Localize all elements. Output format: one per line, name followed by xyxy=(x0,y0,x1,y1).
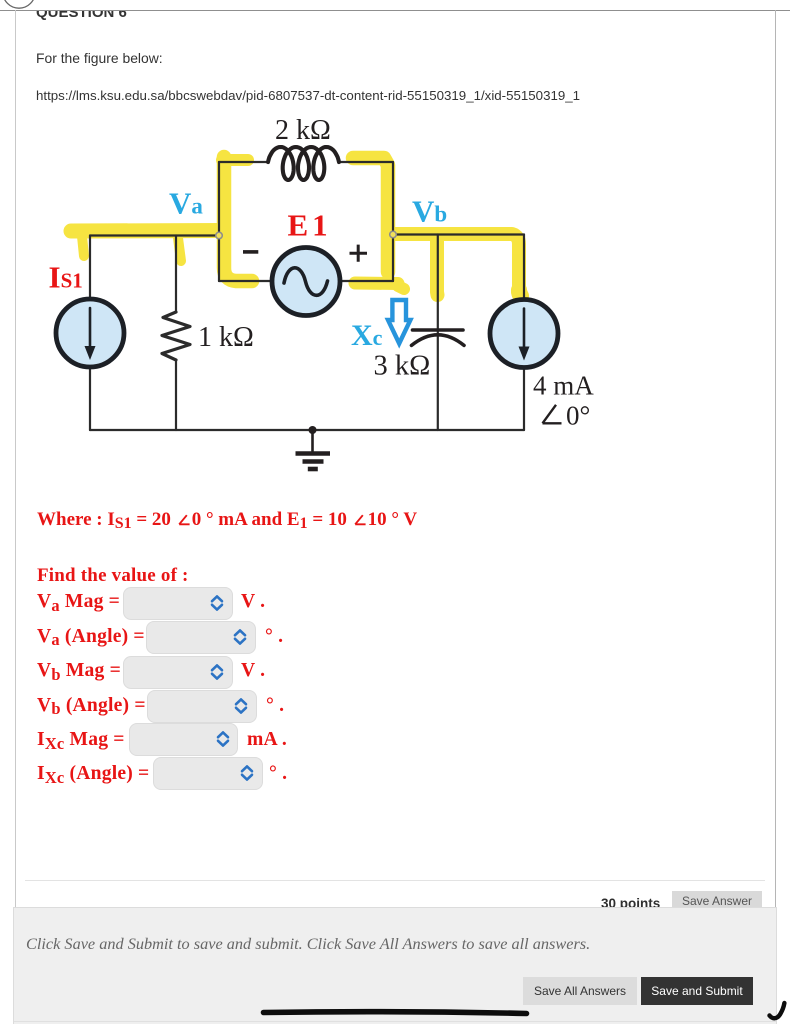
footer bar xyxy=(13,907,777,1024)
where line xyxy=(37,509,417,531)
wire node B to right source xyxy=(393,233,524,235)
pen hook bottom-right xyxy=(770,1003,785,1018)
wires xyxy=(90,162,524,430)
row Va Mag xyxy=(123,587,233,620)
wire capacitor leads xyxy=(437,235,439,431)
junction dot at ground node xyxy=(309,426,317,434)
body text xyxy=(36,50,163,66)
hl wire Is1 to Va xyxy=(71,223,223,239)
hl Vb wire to right source xyxy=(390,234,519,288)
white cover above header line xyxy=(0,0,790,10)
wire right source leads xyxy=(523,235,525,431)
question title (clipped by sticky header line) xyxy=(36,4,127,21)
Ixc current direction arrow xyxy=(388,300,410,344)
wire loop bottom xyxy=(219,280,393,282)
voltage source E1 xyxy=(272,248,340,316)
node A dot (Va) xyxy=(216,232,223,239)
resistor R1 1 kOhm xyxy=(162,312,190,360)
pen line bottom xyxy=(264,1012,527,1014)
node B dot (Vb) xyxy=(390,231,397,238)
wire Is1 to node A horizontal xyxy=(90,234,219,236)
wire bottom rail xyxy=(90,429,524,431)
row Va Angle xyxy=(146,621,256,654)
top header line xyxy=(0,10,790,11)
left border xyxy=(15,10,16,907)
right border xyxy=(775,10,776,907)
current source I2 arrow xyxy=(523,309,526,350)
current source Is1 xyxy=(56,299,124,367)
polarity plus sign xyxy=(350,245,368,262)
value label angle 0 deg xyxy=(543,401,591,431)
inductor L1 2 kOhm xyxy=(268,147,339,180)
capacitor C1 (Xc 3 kOhm) xyxy=(413,328,464,332)
partial circle top-left xyxy=(0,0,45,12)
hl loop left xyxy=(224,157,252,281)
row Vb Mag xyxy=(123,656,233,689)
30 points xyxy=(601,896,660,911)
row Vb Angle xyxy=(147,690,257,723)
polarity minus sign xyxy=(243,250,258,254)
bottom divider xyxy=(25,880,765,881)
hl cap branch xyxy=(430,238,445,295)
current source I2 4 mA xyxy=(490,300,558,368)
wire Is1 bottom lead xyxy=(89,367,91,430)
Save and Submit button xyxy=(641,977,753,1005)
wire Is1 top lead xyxy=(89,236,91,300)
row Ixc Mag xyxy=(129,723,238,756)
voltage source E1 sine wave xyxy=(284,268,328,296)
row Ixc Angle xyxy=(153,757,263,790)
wire loop left vertical xyxy=(218,162,220,281)
Save Answer button xyxy=(672,891,762,913)
wire resistor leads xyxy=(175,236,177,431)
labels xyxy=(49,115,595,431)
wire loop right vertical xyxy=(392,162,394,281)
Save All Answers button xyxy=(523,977,637,1005)
current source Is1 arrow xyxy=(89,308,92,349)
yellow highlighter strokes (under circuit) xyxy=(71,157,521,296)
ground xyxy=(311,430,314,451)
find the value of xyxy=(37,565,189,587)
wire loop top xyxy=(219,161,393,163)
hl loop right xyxy=(353,158,388,272)
